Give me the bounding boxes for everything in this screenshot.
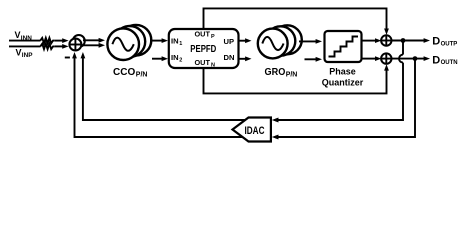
pin label IN1 xyxy=(171,36,182,46)
wire summing node to CCO (top) xyxy=(83,38,105,43)
svg-text:PEPFD: PEPFD xyxy=(190,44,216,55)
svg-text:INP: INP xyxy=(22,52,33,59)
svg-text:P/N: P/N xyxy=(136,71,148,78)
wire top adder to D_OUTP xyxy=(392,38,431,43)
wire summing node to CCO (bottom) xyxy=(82,43,106,48)
wire bottom adder to D_OUTN xyxy=(392,56,431,61)
arrowhead into IDAC (upper) xyxy=(272,118,278,123)
resistor R (V_INN path) xyxy=(40,38,55,43)
wire PEPFD DN to GRO xyxy=(239,56,252,61)
label V_INP xyxy=(16,48,34,60)
svg-text:Quantizer: Quantizer xyxy=(322,78,364,88)
wire V_INP input line xyxy=(9,45,41,47)
adder (top output summer) xyxy=(381,35,391,45)
label GRO_P/N xyxy=(265,67,298,78)
pin label IN2 xyxy=(171,53,182,63)
node junction dot on D_OUTP line xyxy=(401,38,406,43)
label D_OUTN xyxy=(432,54,457,66)
svg-text:GRO: GRO xyxy=(265,67,286,78)
wire resistor to summing node (bottom) xyxy=(55,44,69,49)
svg-text:Phase: Phase xyxy=(329,67,356,77)
label CCO_P/N xyxy=(113,67,147,78)
wire feedback from D_OUTP node down to IDAC (with hop over crossing) xyxy=(272,41,403,123)
svg-text:IN: IN xyxy=(171,36,179,45)
svg-text:OUT: OUT xyxy=(195,58,211,67)
wire CCO to PEPFD IN2 xyxy=(152,56,168,61)
resistor R (V_INP path) xyxy=(40,44,55,49)
svg-text:CCO: CCO xyxy=(113,67,135,78)
minus sign at summing junction xyxy=(65,57,70,59)
staircase symbol in quantizer xyxy=(329,37,359,57)
summing junction (differential pair circles with +) xyxy=(69,35,84,51)
svg-text:OUTP: OUTP xyxy=(441,41,458,47)
wire IDAC output to summing node (lower, outer path) xyxy=(72,52,242,137)
pin label OUT_P xyxy=(195,29,216,39)
svg-text:INN: INN xyxy=(21,35,32,42)
svg-text:P/N: P/N xyxy=(286,71,298,78)
label D_OUTP xyxy=(432,36,457,48)
wire quantizer to bottom adder xyxy=(362,56,382,61)
svg-text:IN: IN xyxy=(171,53,179,62)
block IDAC (left-pointing pentagon) xyxy=(233,118,271,142)
svg-text:P: P xyxy=(211,34,215,40)
wire feedback from D_OUTN node down to IDAC xyxy=(272,59,415,140)
svg-text:OUT: OUT xyxy=(195,29,211,38)
oscillator GRO_P/N (stacked circles with sine) xyxy=(258,25,302,58)
svg-text:1: 1 xyxy=(179,41,182,47)
wire CCO to PEPFD IN1 xyxy=(150,38,168,43)
svg-text:DN: DN xyxy=(224,53,235,62)
svg-text:V: V xyxy=(16,48,22,58)
wire IDAC output to summing node (upper, inner path) xyxy=(81,52,246,120)
wire PEPFD UP to GRO xyxy=(239,38,252,43)
wire OUT_P feed-forward (PEPFD top to top adder) xyxy=(204,8,389,35)
adder (bottom output summer) xyxy=(381,53,391,63)
svg-text:IDAC: IDAC xyxy=(245,125,265,137)
wire quantizer to top adder xyxy=(362,38,382,43)
label V_INN xyxy=(15,30,33,42)
wire GRO to Phase Quantizer (bottom) xyxy=(305,57,323,62)
wire OUT_N feed-forward (PEPFD bottom to bottom adder) xyxy=(204,64,389,93)
wire GRO to Phase Quantizer (top) xyxy=(299,39,322,44)
node junction dot on D_OUTN line xyxy=(413,56,418,61)
svg-text:V: V xyxy=(15,30,21,40)
wire resistor to summing node (top) xyxy=(55,38,69,43)
arrowhead into IDAC (lower) xyxy=(272,135,278,140)
svg-text:D: D xyxy=(432,54,440,66)
svg-text:UP: UP xyxy=(224,37,235,46)
svg-text:N: N xyxy=(211,62,215,68)
block PEPFD xyxy=(169,29,239,68)
svg-text:D: D xyxy=(432,36,440,48)
block Phase Quantizer xyxy=(325,31,362,62)
svg-text:OUTN: OUTN xyxy=(441,60,458,66)
oscillator CCO_P/N (stacked circles with sine) xyxy=(107,25,151,60)
svg-text:2: 2 xyxy=(179,58,182,64)
pin label OUT_N xyxy=(195,58,216,68)
wire V_INN input line xyxy=(9,40,41,42)
